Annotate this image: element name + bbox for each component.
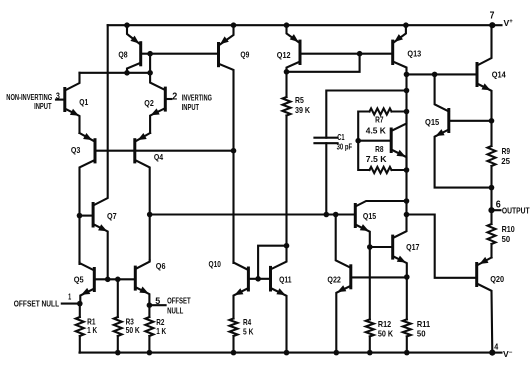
- resistor R7: [358, 108, 406, 140]
- resistor R3: [114, 279, 140, 352]
- svg-text:Q22: Q22: [327, 274, 341, 284]
- svg-text:5 K: 5 K: [243, 327, 253, 337]
- wire Q12-Q13 base line: [302, 53, 393, 55]
- resistor R9: [488, 121, 511, 188]
- wire first-stage output line: [150, 213, 354, 215]
- node pin 2 inverting input: [172, 91, 212, 112]
- svg-text:25: 25: [501, 156, 510, 166]
- wire Q8 base-collector tie: [149, 54, 151, 73]
- svg-text:4.5 K: 4.5 K: [366, 126, 386, 136]
- transistor Q7: [80, 25, 118, 279]
- node junction Q22 collector tap: [333, 212, 339, 218]
- resistor R10: [488, 210, 516, 257]
- svg-text:Q20: Q20: [490, 274, 504, 284]
- wire Q5-Q6 base line: [94, 278, 135, 280]
- svg-text:Q2: Q2: [144, 98, 154, 108]
- svg-text:R12: R12: [378, 319, 392, 329]
- svg-text:7.5 K: 7.5 K: [366, 154, 387, 164]
- node junction R12 bottom on rail: [367, 350, 373, 356]
- node junction Q9 collector / Q3-Q4 bases: [231, 148, 237, 154]
- svg-text:Q15: Q15: [363, 211, 377, 221]
- node junction Q14 emitter / Q15 base / R9 top: [489, 118, 495, 124]
- wire Q22 base line: [352, 276, 407, 278]
- node junction Q22 emitter on rail: [334, 350, 340, 356]
- wire V+ rail (top): [108, 24, 493, 26]
- node junction R11 bottom on rail: [404, 350, 410, 356]
- transistor Q8: [118, 25, 140, 73]
- wire Q12 collector to base jog: [287, 54, 360, 72]
- wire Q3-Q4 base line: [95, 150, 135, 152]
- svg-text:Q11: Q11: [279, 275, 292, 285]
- transistor Q1: [56, 73, 89, 133]
- svg-text:OFFSET NULL: OFFSET NULL: [14, 299, 59, 308]
- wire Q13 collector bus: [405, 74, 407, 214]
- transistor Q20: [477, 257, 505, 353]
- wire Q20 base path: [407, 215, 476, 278]
- resistor R11: [403, 277, 431, 353]
- node junction Q8 emitter on V+ rail: [124, 22, 130, 28]
- svg-text:Q7: Q7: [107, 211, 117, 221]
- transistor Q2: [144, 75, 171, 133]
- svg-text:INPUT: INPUT: [34, 102, 52, 111]
- svg-text:4: 4: [494, 342, 498, 351]
- node junction C1 bottom: [324, 212, 330, 218]
- transistor Q11: [271, 246, 292, 353]
- node junction Q8 collector: [124, 70, 130, 76]
- transistor Q17: [370, 215, 420, 278]
- svg-text:5: 5: [155, 296, 161, 307]
- node junction R5 bottom / Q11 collector: [284, 243, 290, 249]
- resistor R4: [230, 317, 254, 353]
- svg-text:R10: R10: [502, 224, 515, 234]
- svg-text:Q6: Q6: [156, 261, 166, 271]
- svg-text:39 K: 39 K: [295, 105, 310, 115]
- svg-text:50 K: 50 K: [378, 329, 393, 339]
- node junction Q12 collector / R5 top: [284, 69, 290, 75]
- transistor Q22: [327, 215, 350, 353]
- wire R9 to output: [490, 188, 492, 211]
- svg-text:1 K: 1 K: [156, 326, 166, 336]
- transistor Q9: [219, 25, 250, 263]
- node pin 5 offset null: [147, 296, 191, 316]
- svg-text:INPUT: INPUT: [182, 103, 200, 112]
- svg-text:R5: R5: [295, 95, 304, 105]
- node junction Q11 emitter on rail: [284, 350, 290, 356]
- svg-text:1: 1: [68, 292, 71, 301]
- node junction R9 bottom / Q15 emitter: [489, 185, 495, 191]
- resistor R2: [145, 305, 166, 352]
- svg-text:R8: R8: [375, 144, 384, 154]
- svg-text:Q14: Q14: [492, 69, 506, 79]
- svg-text:NULL: NULL: [167, 307, 183, 316]
- transistor Q15 current-limit: [425, 74, 492, 187]
- svg-text:OFFSET: OFFSET: [167, 296, 191, 305]
- svg-text:OUTPUT: OUTPUT: [502, 206, 530, 215]
- transistor Q4: [135, 133, 164, 260]
- node junction R7 right on bus: [404, 109, 410, 115]
- svg-text:Q5: Q5: [74, 275, 84, 285]
- wire V- rail (bottom): [80, 352, 493, 354]
- svg-text:Q4: Q4: [154, 152, 164, 162]
- svg-text:2: 2: [172, 91, 177, 102]
- svg-text:R11: R11: [417, 319, 431, 329]
- svg-text:NON-INVERTING: NON-INVERTING: [6, 93, 52, 102]
- svg-text:C1: C1: [337, 132, 345, 142]
- transistor Q6: [135, 261, 166, 306]
- node junction Q15 collector on bus: [404, 198, 410, 204]
- transistor Q14: [477, 25, 506, 121]
- node junction Q13 emitter on V+ rail: [403, 22, 409, 28]
- wire Q4 base to Q9 collector: [135, 150, 234, 152]
- resistor R5: [283, 72, 311, 246]
- node pin 6 output: [488, 200, 529, 216]
- node junction Q17 emitter / Q22 base / R11 top: [404, 274, 410, 280]
- node junction Q8 base tie / Q2 collector: [147, 70, 153, 76]
- svg-text:R4: R4: [243, 317, 251, 327]
- svg-text:Q10: Q10: [209, 259, 222, 269]
- wire Q11 base-collector tie: [258, 246, 286, 279]
- node junction base tie on Q10-Q11 line: [255, 276, 261, 282]
- svg-text:Q15: Q15: [425, 117, 440, 127]
- node pin 1 offset null: [14, 292, 83, 308]
- node junction C1 top on bus: [404, 88, 410, 94]
- svg-text:Q8: Q8: [118, 50, 128, 60]
- node junction Q4-Q6 collectors: [147, 212, 153, 218]
- wire Q1-Q8-Q2 collector bus: [80, 72, 151, 74]
- node junction Q13 collector / Q14 base: [404, 72, 410, 78]
- node junction R4 bottom on rail: [231, 350, 237, 356]
- svg-text:50: 50: [502, 234, 511, 244]
- node junction base jog tie: [357, 51, 363, 57]
- transistor Q16 Vbe-multiplier: [358, 112, 406, 171]
- node junction base-collector tie Q8: [147, 51, 153, 57]
- svg-text:1 K: 1 K: [87, 325, 97, 335]
- svg-text:Q1: Q1: [79, 97, 88, 107]
- transistor Q5: [74, 262, 95, 304]
- transistor Q13: [393, 25, 422, 74]
- svg-text:R7: R7: [375, 115, 384, 125]
- node junction Q15 collector on Q14 base: [432, 72, 438, 78]
- svg-text:Q17: Q17: [406, 242, 420, 252]
- wire Q8-Q9 base line: [142, 53, 218, 55]
- capacitor C1: [315, 91, 407, 215]
- svg-text:50: 50: [417, 329, 426, 339]
- resistor R12: [366, 247, 393, 353]
- svg-text:30 pF: 30 pF: [337, 141, 353, 151]
- node junction Q7 base / Q3 collector: [77, 213, 83, 219]
- svg-text:R9: R9: [502, 146, 511, 156]
- transistor Q3: [71, 133, 95, 264]
- svg-text:50 K: 50 K: [126, 325, 140, 335]
- node junction R3 top on base line: [115, 277, 121, 283]
- svg-text:INVERTING: INVERTING: [182, 93, 212, 102]
- node junction Q20 base tap / Q17 collector: [404, 212, 410, 218]
- svg-text:Q12: Q12: [277, 50, 291, 60]
- node junction Q9 emitter on V+ rail: [231, 22, 237, 28]
- node junction Q7 emitter on base line: [105, 277, 111, 283]
- transistor Q10: [209, 259, 249, 319]
- svg-text:6: 6: [496, 200, 502, 211]
- svg-text:3: 3: [56, 91, 60, 102]
- node junction R8 right on bus: [404, 167, 410, 173]
- node pin 4 terminal V-: [489, 342, 513, 358]
- node junction Q17 base / R12 top: [367, 244, 373, 250]
- node pin 3 non-inverting input: [6, 91, 60, 111]
- svg-text:Q13: Q13: [407, 49, 421, 59]
- node junction R3 bottom on rail: [115, 350, 121, 356]
- transistor Q15 second-stage: [355, 201, 406, 247]
- wire Q10-Q11 base line: [248, 278, 270, 280]
- node junction Vbe-multiplier base: [355, 138, 361, 144]
- transistor Q12: [277, 25, 300, 72]
- wire Q14 base line: [407, 73, 478, 75]
- resistor R8: [358, 141, 406, 173]
- svg-text:Q9: Q9: [240, 50, 249, 60]
- svg-text:Q3: Q3: [71, 145, 81, 155]
- node junction R2 bottom on rail: [147, 350, 153, 356]
- node junction Q12 emitter on V+ rail: [284, 22, 290, 28]
- resistor R1: [76, 304, 97, 353]
- node pin 7 terminal V+: [489, 11, 513, 29]
- svg-text:7: 7: [490, 11, 495, 22]
